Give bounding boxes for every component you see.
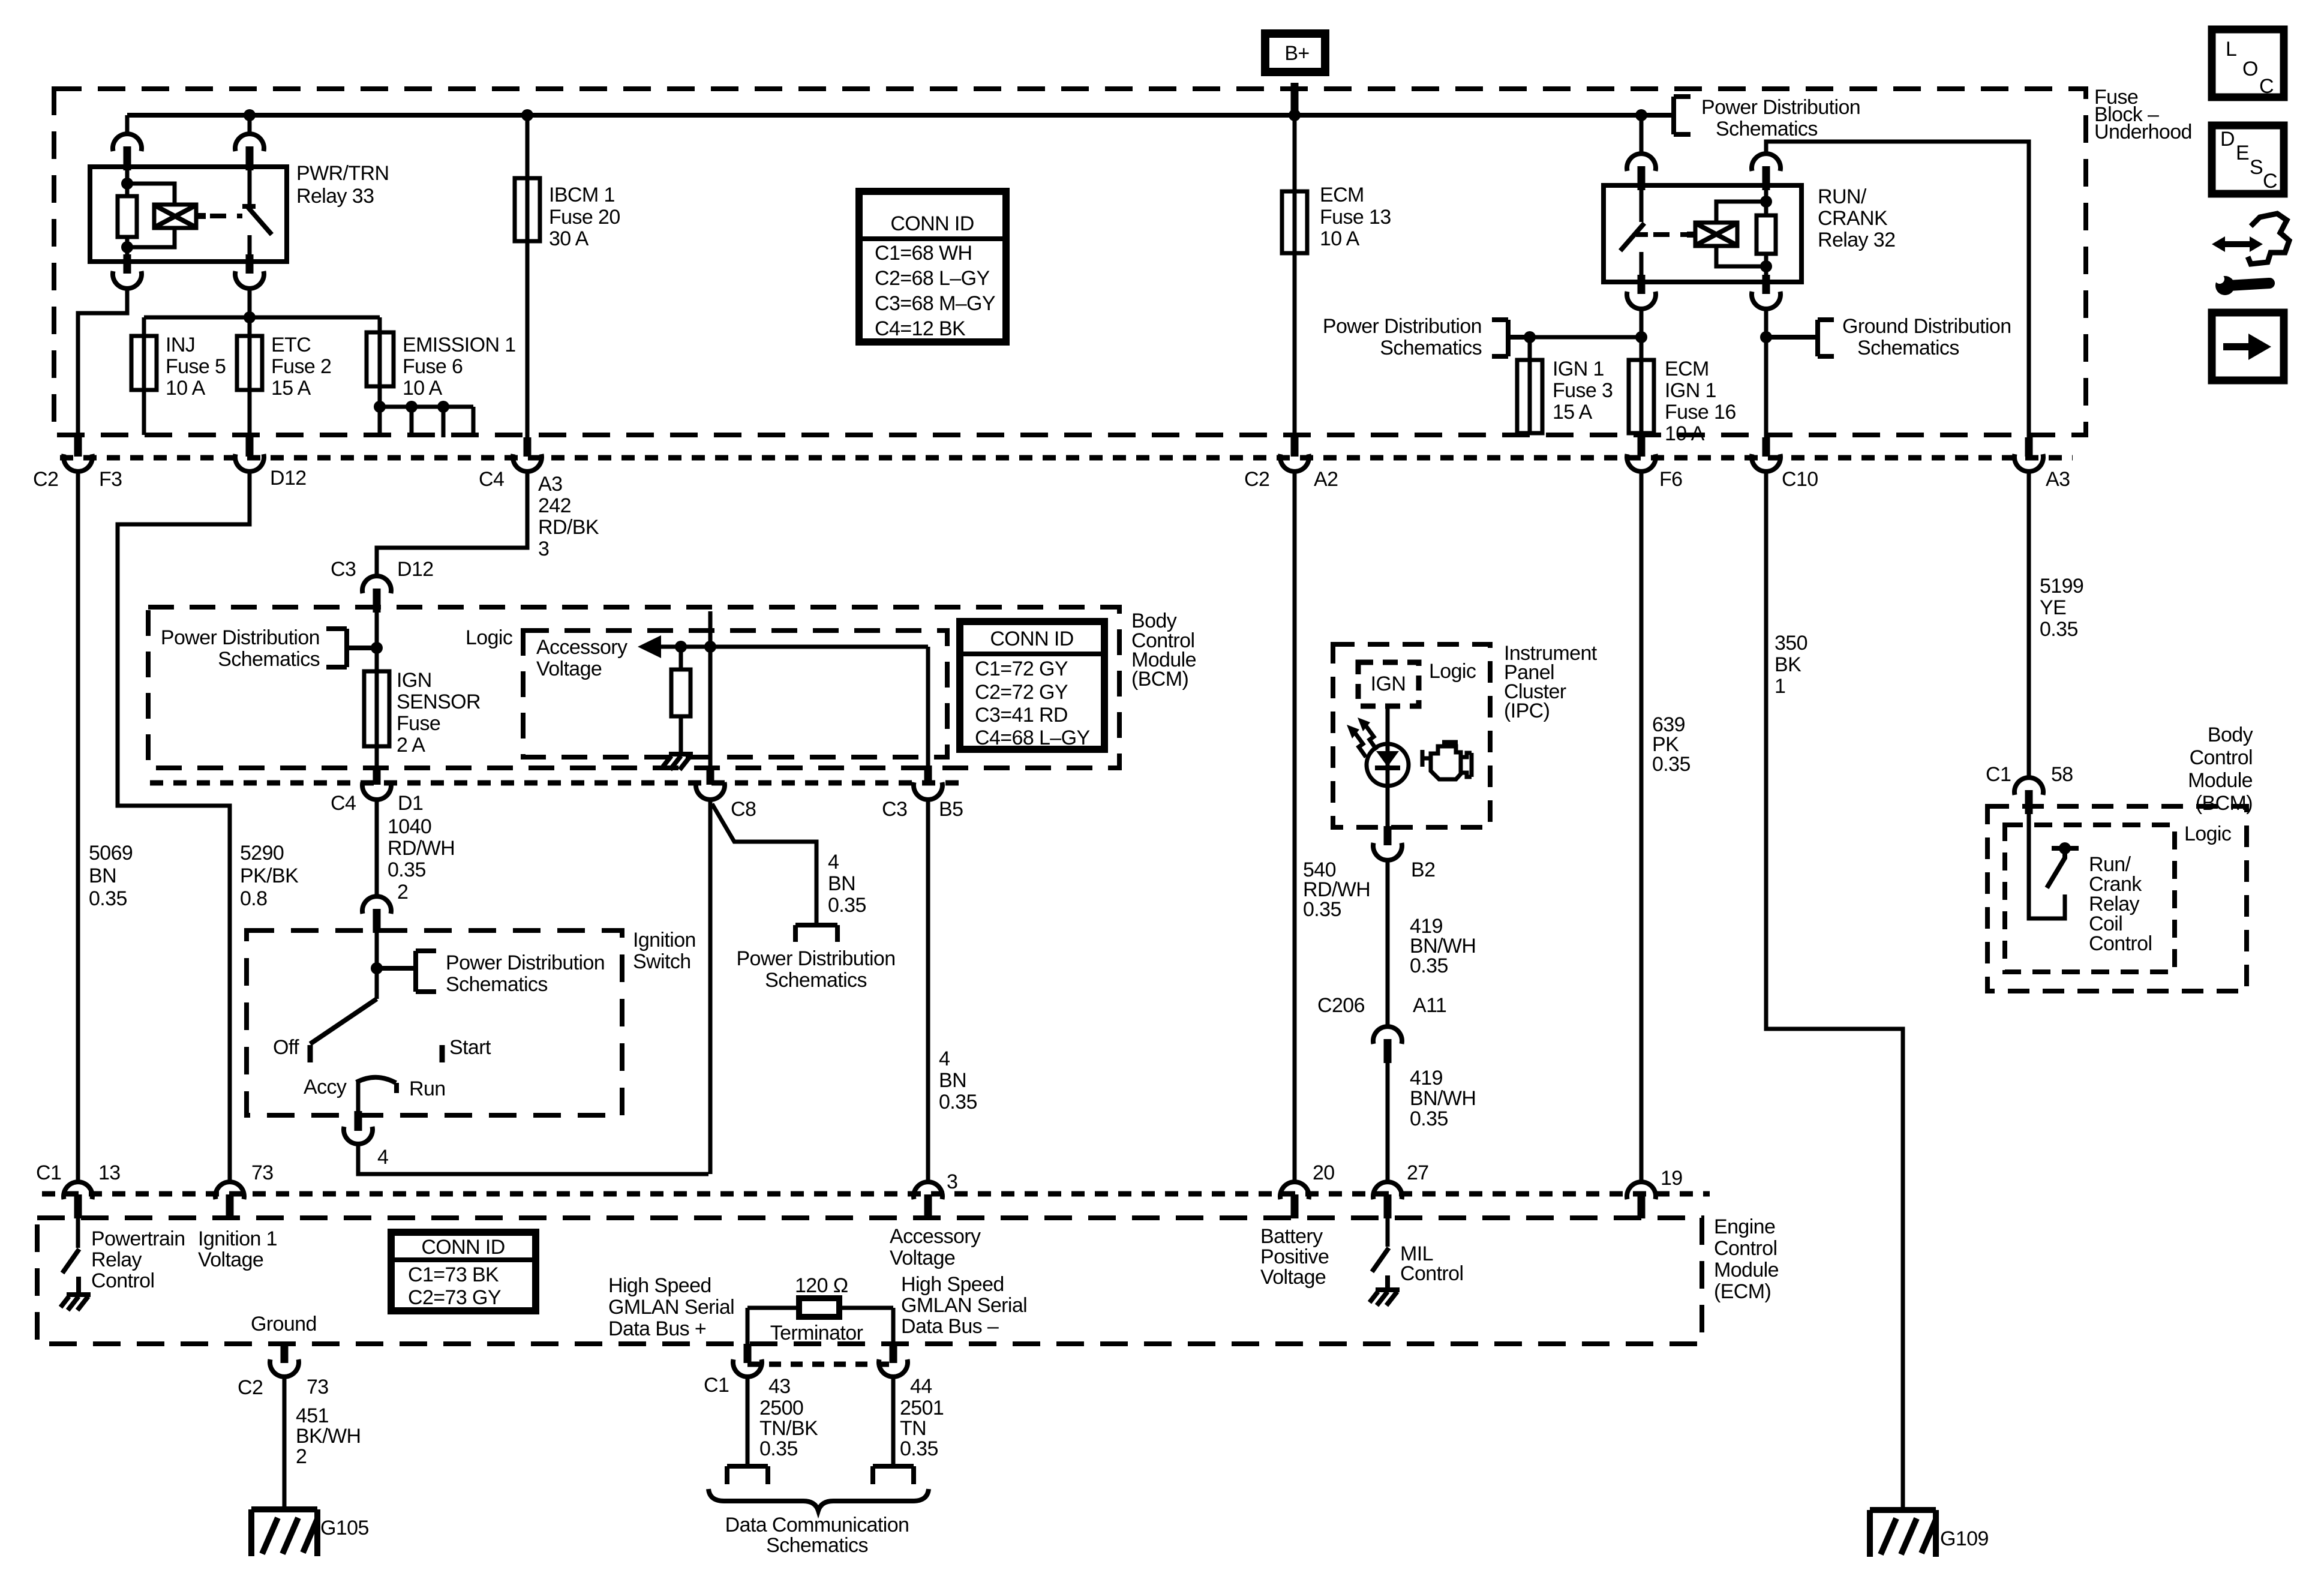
relay R33 coil resistor xyxy=(118,196,137,237)
connector 73 xyxy=(215,1182,244,1218)
relay R32 label xyxy=(1818,185,1895,251)
ECM connector dotted row xyxy=(42,1191,1710,1197)
icon arrow box xyxy=(2212,313,2284,380)
svg-text:Control: Control xyxy=(91,1269,154,1292)
svg-text:G109: G109 xyxy=(1940,1527,1989,1550)
svg-text:TN: TN xyxy=(900,1417,926,1440)
connector F6 at fuse block xyxy=(1627,437,1656,472)
IPC dashed box xyxy=(1333,644,1490,827)
svg-text:BN: BN xyxy=(89,864,116,887)
MIL indicator LED xyxy=(1367,744,1409,786)
fuse block underhood dashed box xyxy=(54,89,2086,435)
BCM2 logic dashed box xyxy=(2005,825,2175,972)
svg-text:High Speed: High Speed xyxy=(901,1273,1004,1296)
wire label 4 BN 0.35 (B5) xyxy=(939,1047,977,1113)
svg-text:Body: Body xyxy=(2208,724,2253,746)
svg-text:ECM: ECM xyxy=(1665,358,1709,380)
svg-text:C206: C206 xyxy=(1317,994,1365,1017)
svg-text:Battery: Battery xyxy=(1260,1225,1323,1248)
off-page stub data bus - xyxy=(873,1466,914,1484)
svg-text:Accessory: Accessory xyxy=(890,1225,981,1248)
svg-text:F3: F3 xyxy=(99,468,122,491)
off-page bracket: power distribution schematics (ign switch) xyxy=(377,951,605,996)
svg-text:3: 3 xyxy=(538,538,549,560)
wire relay33 switch to fuse feed line xyxy=(248,288,252,317)
connector relay32 coil top xyxy=(1752,154,1780,190)
relay R33 box xyxy=(90,167,287,262)
svg-text:C1: C1 xyxy=(36,1161,61,1184)
connector row dotted line under fuse block xyxy=(60,455,2073,461)
svg-text:73: 73 xyxy=(307,1376,329,1398)
ground output wire xyxy=(251,1313,317,1363)
svg-text:350: 350 xyxy=(1774,632,1807,655)
svg-text:BN: BN xyxy=(939,1069,966,1092)
wire label 4 BN 0.35 (C8 branch) xyxy=(828,851,866,917)
connector C3/D12 inline xyxy=(362,576,391,613)
svg-text:419: 419 xyxy=(1410,1067,1443,1089)
node C8 tap xyxy=(704,641,716,653)
svg-text:S: S xyxy=(2250,156,2263,179)
svg-text:Logic: Logic xyxy=(466,626,513,649)
fuse IBCM1 Fuse20 xyxy=(515,115,620,442)
svg-text:C: C xyxy=(2259,75,2274,98)
wire accy down through box edge xyxy=(355,1082,362,1131)
svg-text:Schematics: Schematics xyxy=(765,969,867,992)
svg-text:C1: C1 xyxy=(1986,763,2011,786)
svg-text:2: 2 xyxy=(397,881,408,903)
connector 19 xyxy=(1627,1182,1656,1218)
BCM2 outer dashed box xyxy=(1987,806,2247,991)
ground powertrain driver xyxy=(61,1295,91,1310)
svg-text:G105: G105 xyxy=(320,1517,369,1539)
svg-text:RD/BK: RD/BK xyxy=(538,516,599,539)
svg-text:Schematics: Schematics xyxy=(1857,337,1959,359)
svg-text:73: 73 xyxy=(251,1161,274,1184)
svg-text:1040: 1040 xyxy=(388,815,431,838)
svg-text:1: 1 xyxy=(1774,675,1785,698)
svg-text:C2=73 GY: C2=73 GY xyxy=(408,1286,501,1309)
relay R32 dashed link and stub xyxy=(1653,232,1697,237)
wire bus to relay33 coil pin xyxy=(125,115,130,134)
relay R32 coil wire xyxy=(1764,187,1768,282)
svg-text:5290: 5290 xyxy=(240,842,284,864)
svg-text:(BCM): (BCM) xyxy=(2196,792,2253,815)
wire C8 branch to power distribution xyxy=(712,804,816,923)
svg-text:Fuse 13: Fuse 13 xyxy=(1320,206,1391,229)
svg-text:D12: D12 xyxy=(397,558,434,581)
wire label 451 BK/WH 2 xyxy=(296,1404,361,1468)
svg-text:GMLAN Serial: GMLAN Serial xyxy=(901,1294,1027,1317)
wire to G105 xyxy=(283,1377,287,1509)
svg-text:C3=41 RD: C3=41 RD xyxy=(975,704,1068,727)
svg-text:242: 242 xyxy=(538,494,571,517)
fuse INJ Fuse5 xyxy=(131,317,226,435)
svg-text:Schematics: Schematics xyxy=(1380,337,1482,359)
main bus wire xyxy=(127,113,1674,118)
svg-text:B+: B+ xyxy=(1284,42,1309,65)
contact Accy-Run arc xyxy=(304,1076,446,1100)
svg-text:0.35: 0.35 xyxy=(388,858,426,881)
terminator dotted row xyxy=(747,1362,893,1367)
relay R33 coil bypass loop xyxy=(127,184,175,247)
connector relay33 switch bottom xyxy=(235,254,264,289)
wire BCM B5 down xyxy=(926,647,930,769)
fuse IGN SENSOR Fuse 2A xyxy=(364,669,481,757)
wire label 419 BN/WH 0.35 lower xyxy=(1410,1067,1476,1130)
svg-text:ECM: ECM xyxy=(1320,184,1364,206)
connector relay33 switch top xyxy=(235,134,264,170)
icon double arrow xyxy=(2212,236,2263,252)
icon part outline xyxy=(2248,214,2289,264)
svg-text:Power Distribution: Power Distribution xyxy=(1323,315,1482,338)
node bus-B+ xyxy=(1289,109,1301,121)
wire F6 to ECM pin19 xyxy=(1640,471,1644,1182)
svg-text:Fuse 16: Fuse 16 xyxy=(1665,401,1736,424)
svg-text:IGN: IGN xyxy=(397,669,432,692)
svg-text:C8: C8 xyxy=(731,798,756,821)
node relay32 coil top xyxy=(1760,196,1772,208)
svg-text:Module: Module xyxy=(1714,1259,1779,1281)
connector 4 ignition switch xyxy=(344,1127,388,1169)
wire relay32 switch to ign fuses xyxy=(1640,309,1644,360)
wire F3 to ECM pin13 xyxy=(76,471,80,1182)
svg-text:Engine: Engine xyxy=(1714,1215,1775,1238)
BCM logic ground xyxy=(663,754,693,770)
wire BCM C8 down xyxy=(708,611,713,769)
svg-text:Terminator: Terminator xyxy=(770,1322,863,1344)
svg-text:B5: B5 xyxy=(939,798,963,821)
wire label 350 BK 1 xyxy=(1774,632,1807,698)
emission fuse output prongs xyxy=(374,401,473,437)
svg-text:0.35: 0.35 xyxy=(1652,753,1691,776)
svg-text:10 A: 10 A xyxy=(1665,422,1705,445)
brace xyxy=(708,1489,929,1511)
relay R33 label xyxy=(296,162,389,208)
connector B2 xyxy=(1373,826,1402,860)
svg-text:C3: C3 xyxy=(331,558,356,581)
svg-text:Powertrain: Powertrain xyxy=(91,1227,185,1250)
connector D12 at fuse block xyxy=(235,437,264,472)
fuse ECM Fuse13 xyxy=(1282,115,1391,442)
wire label 5290 PK/BK 0.8 xyxy=(240,842,299,910)
svg-text:Fuse 20: Fuse 20 xyxy=(549,206,620,229)
Logic label xyxy=(466,626,513,649)
svg-text:Schematics: Schematics xyxy=(218,648,320,671)
svg-text:A3: A3 xyxy=(2046,468,2070,491)
svg-text:Power Distribution: Power Distribution xyxy=(161,626,320,649)
BCM connector dotted row xyxy=(150,781,960,786)
svg-text:YE: YE xyxy=(2040,596,2066,619)
svg-text:Schematics: Schematics xyxy=(1716,118,1818,140)
ground G109 xyxy=(1870,1510,1936,1557)
wire label 419 BN/WH 0.35 xyxy=(1410,915,1476,977)
svg-text:2: 2 xyxy=(296,1445,307,1468)
ign fuse feed branch wire xyxy=(1524,331,1647,343)
wire label 5199 YE 0.35 xyxy=(2040,575,2083,641)
svg-text:Fuse 5: Fuse 5 xyxy=(166,355,226,378)
wire label 540 RD/WH 0.35 xyxy=(1303,858,1370,921)
wire C8 to ign jog xyxy=(708,800,713,1174)
data communication schematics label xyxy=(725,1514,909,1557)
svg-text:CONN ID: CONN ID xyxy=(890,212,974,235)
svg-text:C2: C2 xyxy=(1244,468,1269,491)
svg-text:D: D xyxy=(2220,128,2235,151)
wire label 2500 TN/BK 0.35 xyxy=(759,1397,818,1460)
wire B5 to ECM pin3 xyxy=(926,800,930,1182)
svg-text:Accy: Accy xyxy=(304,1076,347,1098)
svg-text:Relay 32: Relay 32 xyxy=(1818,229,1895,251)
svg-text:F6: F6 xyxy=(1659,468,1682,491)
relay R33 switch contact xyxy=(242,168,272,262)
node fuse feed xyxy=(244,311,256,323)
svg-text:4: 4 xyxy=(377,1146,388,1169)
svg-text:Voltage: Voltage xyxy=(1260,1266,1326,1289)
wire 43 down xyxy=(746,1377,750,1464)
connector C206/A11 xyxy=(1373,1026,1402,1063)
BCM outer dashed box xyxy=(148,607,1119,768)
svg-text:(BCM): (BCM) xyxy=(1131,668,1188,691)
svg-text:Voltage: Voltage xyxy=(536,658,602,680)
wire label 1040 RD/WH 0.35 2 xyxy=(388,815,455,903)
ECM dashed box xyxy=(37,1218,1702,1344)
node coil top xyxy=(121,178,133,190)
svg-text:Off: Off xyxy=(273,1036,299,1059)
relay R32 solenoid valve box xyxy=(1695,223,1737,246)
svg-text:Ignition 1: Ignition 1 xyxy=(198,1227,277,1250)
svg-text:C3=68 M–GY: C3=68 M–GY xyxy=(875,292,995,315)
svg-text:BN/WH: BN/WH xyxy=(1410,1087,1476,1110)
svg-text:0.35: 0.35 xyxy=(759,1437,798,1460)
connector 2 ignition switch xyxy=(362,896,391,933)
svg-text:Switch: Switch xyxy=(633,950,691,973)
svg-text:Voltage: Voltage xyxy=(890,1247,955,1269)
svg-text:C2=72 GY: C2=72 GY xyxy=(975,681,1068,704)
svg-text:Data Communication: Data Communication xyxy=(725,1514,909,1536)
svg-text:0.35: 0.35 xyxy=(828,894,866,917)
svg-text:IGN 1: IGN 1 xyxy=(1665,379,1716,402)
svg-text:Data Bus +: Data Bus + xyxy=(608,1317,706,1340)
svg-text:Positive: Positive xyxy=(1260,1245,1329,1268)
off-page stub data bus + xyxy=(727,1466,768,1484)
connector C2/A2 at fuse block xyxy=(1280,437,1309,472)
svg-text:C1: C1 xyxy=(704,1374,729,1397)
svg-text:RUN/: RUN/ xyxy=(1818,185,1867,208)
svg-text:44: 44 xyxy=(910,1375,932,1398)
svg-text:Voltage: Voltage xyxy=(198,1248,263,1271)
B+ battery feed xyxy=(1265,34,1325,72)
svg-text:2500: 2500 xyxy=(759,1397,803,1419)
svg-text:0.35: 0.35 xyxy=(939,1091,977,1113)
relay R32 coil loop xyxy=(1716,202,1766,266)
svg-text:0.35: 0.35 xyxy=(2040,618,2078,641)
LED arrows xyxy=(1347,718,1377,757)
svg-text:C4=68 L–GY: C4=68 L–GY xyxy=(975,727,1090,749)
ECM label xyxy=(1714,1215,1779,1303)
node coil bottom xyxy=(121,241,133,253)
svg-text:C: C xyxy=(2263,170,2277,193)
svg-text:A3: A3 xyxy=(538,473,562,496)
svg-text:A11: A11 xyxy=(1413,994,1446,1017)
engine icon xyxy=(1422,742,1472,779)
svg-text:PWR/TRN: PWR/TRN xyxy=(296,162,389,185)
svg-text:C1=68 WH: C1=68 WH xyxy=(875,242,972,265)
wire B+ down to bus xyxy=(1291,83,1299,115)
icon wrench xyxy=(2215,274,2275,295)
svg-text:C10: C10 xyxy=(1782,468,1818,491)
node resistor tap xyxy=(675,641,687,653)
svg-text:PK/BK: PK/BK xyxy=(240,864,299,887)
connector relay33 coil top xyxy=(113,134,142,170)
Logic label IPC xyxy=(1429,660,1476,683)
svg-text:SENSOR: SENSOR xyxy=(397,691,481,713)
svg-text:15 A: 15 A xyxy=(1553,401,1593,424)
wire A11 to ECM pin27 xyxy=(1386,1062,1390,1182)
svg-text:Logic: Logic xyxy=(2184,822,2232,845)
svg-text:RD/WH: RD/WH xyxy=(388,837,455,860)
svg-text:2 A: 2 A xyxy=(397,734,425,757)
svg-text:Control: Control xyxy=(1400,1262,1463,1285)
svg-text:C2: C2 xyxy=(238,1376,263,1399)
wire ign 4 to BCM C8 xyxy=(358,1144,708,1174)
svg-text:0.35: 0.35 xyxy=(900,1437,938,1460)
connector C2/F3 at fuse block xyxy=(64,437,92,472)
wire relay33 coil to F3 xyxy=(78,288,127,439)
connector 3 xyxy=(914,1182,942,1218)
wire relay32 coil to C10 xyxy=(1760,309,1772,437)
CONN ID table (ECM) xyxy=(391,1232,536,1311)
powertrain relay control driver xyxy=(62,1218,79,1293)
connector 44 xyxy=(879,1359,932,1398)
connector C4/A3 at fuse block xyxy=(513,437,542,472)
svg-text:2501: 2501 xyxy=(900,1397,944,1419)
svg-text:ETC: ETC xyxy=(271,334,311,356)
svg-text:Accessory: Accessory xyxy=(536,636,627,659)
ground MIL driver xyxy=(1370,1290,1400,1305)
svg-text:3: 3 xyxy=(947,1170,957,1193)
wire A3 to BCM C3 xyxy=(377,471,527,577)
svg-text:30 A: 30 A xyxy=(549,227,589,250)
fuse IGN1 Fuse3 xyxy=(1517,337,1613,435)
svg-text:BN: BN xyxy=(828,872,855,895)
CONN ID table (fuse block) xyxy=(859,191,1006,342)
node bus-relay33 xyxy=(244,109,256,121)
connector 27 xyxy=(1373,1182,1402,1218)
wire A3 to BCM2 C1 xyxy=(2027,471,2031,778)
wire D12 to ECM pin73 xyxy=(118,471,250,1182)
relay R33 coil wire xyxy=(125,168,130,262)
svg-text:5199: 5199 xyxy=(2040,575,2083,598)
svg-text:Module: Module xyxy=(2188,769,2253,792)
wire B2 to C206 xyxy=(1386,860,1390,1027)
fuse ECM IGN1 Fuse16 xyxy=(1629,337,1736,445)
connector C4/D1 xyxy=(362,766,391,800)
contact Start xyxy=(442,1036,491,1062)
svg-text:5069: 5069 xyxy=(89,842,133,864)
svg-text:INJ: INJ xyxy=(166,334,195,356)
ignition switch dashed box xyxy=(247,930,622,1115)
svg-text:Control: Control xyxy=(1714,1237,1777,1260)
icon DESC box xyxy=(2212,125,2284,194)
wire bus to relay32 switch pin xyxy=(1640,115,1644,154)
svg-text:CRANK: CRANK xyxy=(1818,207,1888,230)
svg-text:C4=12 BK: C4=12 BK xyxy=(875,317,966,340)
node bus-relay32 xyxy=(1635,109,1647,121)
svg-text:Underhood: Underhood xyxy=(2094,121,2192,143)
relay R33 solenoid valve box xyxy=(154,205,196,228)
svg-text:C2=68 L–GY: C2=68 L–GY xyxy=(875,267,990,290)
terminator legs xyxy=(744,1308,897,1363)
wire relay32 coil pin up and over to A3 drop xyxy=(1766,142,2029,442)
svg-text:Logic: Logic xyxy=(1429,660,1476,683)
connector C3/B5 xyxy=(914,766,942,800)
off-page bracket: power distribution schematics (left mid) xyxy=(1323,315,1530,359)
MIL control driver xyxy=(1372,1218,1389,1289)
svg-text:O: O xyxy=(2242,58,2258,80)
svg-text:13: 13 xyxy=(98,1161,121,1184)
connector relay32 switch bottom xyxy=(1627,275,1656,309)
svg-text:A2: A2 xyxy=(1314,468,1338,491)
svg-text:CONN ID: CONN ID xyxy=(990,628,1073,650)
svg-text:4: 4 xyxy=(828,851,839,873)
svg-text:Power Distribution: Power Distribution xyxy=(1701,96,1860,119)
svg-text:D12: D12 xyxy=(270,467,307,490)
connector A3 at fuse block right xyxy=(2014,437,2043,472)
svg-text:IGN: IGN xyxy=(1371,673,1406,695)
svg-text:Relay 33: Relay 33 xyxy=(296,185,374,208)
connector C2/73 ground xyxy=(238,1359,329,1399)
svg-text:Control: Control xyxy=(2190,746,2253,769)
run/crank relay coil control driver xyxy=(2029,813,2079,918)
svg-text:0.8: 0.8 xyxy=(240,887,267,910)
svg-text:EMISSION 1: EMISSION 1 xyxy=(403,334,516,356)
svg-text:Power Distribution: Power Distribution xyxy=(736,947,895,970)
svg-text:Power Distribution: Power Distribution xyxy=(446,951,605,974)
svg-text:15 A: 15 A xyxy=(271,377,311,400)
BCM pulldown resistor xyxy=(671,647,690,753)
svg-text:Control: Control xyxy=(2089,932,2152,955)
svg-text:4: 4 xyxy=(939,1047,950,1070)
node relay32 coil bottom xyxy=(1760,260,1772,272)
fuse EMISSION1 Fuse6 xyxy=(367,317,516,407)
svg-text:Ignition: Ignition xyxy=(633,929,696,951)
svg-text:(ECM): (ECM) xyxy=(1714,1280,1771,1303)
svg-text:Fuse 3: Fuse 3 xyxy=(1553,379,1613,402)
svg-text:IGN 1: IGN 1 xyxy=(1553,358,1604,380)
ignition switch rotor arm xyxy=(310,999,377,1062)
svg-text:Fuse 2: Fuse 2 xyxy=(271,355,331,378)
connector relay32 coil bottom xyxy=(1752,275,1780,309)
ignition 1 voltage label xyxy=(198,1227,277,1271)
fuse ETC Fuse2 xyxy=(237,317,331,442)
CONN ID table (BCM) xyxy=(960,622,1104,749)
connector 20 xyxy=(1280,1182,1309,1218)
svg-text:120 Ω: 120 Ω xyxy=(795,1274,848,1297)
IPC label xyxy=(1504,642,1598,722)
BCM logic dashed box xyxy=(523,631,947,757)
off-page bracket: power distribution schematics (bus end) xyxy=(1674,96,1860,140)
svg-text:0.35: 0.35 xyxy=(89,887,127,910)
connector C1/58 xyxy=(2014,778,2043,814)
svg-text:Schematics: Schematics xyxy=(766,1534,868,1557)
svg-text:10 A: 10 A xyxy=(403,377,443,400)
svg-text:10 A: 10 A xyxy=(166,377,206,400)
svg-text:L: L xyxy=(2226,38,2236,61)
ignition switch feed wire xyxy=(371,932,383,999)
relay R32 switch contact xyxy=(1620,187,1648,282)
connector C1/13 xyxy=(64,1182,92,1218)
IGN source box xyxy=(1358,662,1419,706)
relay R33 actuator stub and dashed link xyxy=(196,213,242,219)
